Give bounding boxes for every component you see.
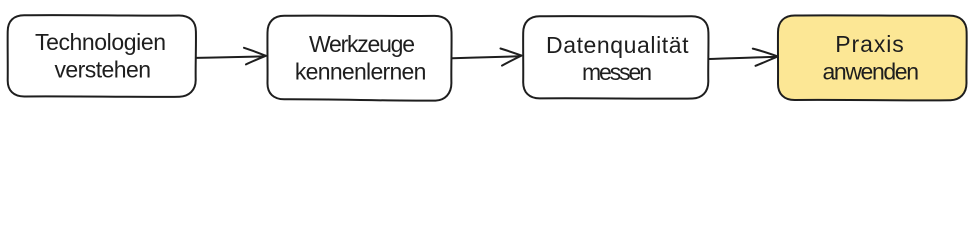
svg-text:Werkzeuge: Werkzeuge [309,31,415,57]
svg-text:anwenden: anwenden [823,58,920,84]
svg-text:Praxis: Praxis [835,31,904,57]
svg-text:Datenqualität: Datenqualität [546,32,689,58]
svg-text:Technologien: Technologien [35,29,166,55]
svg-text:messen: messen [582,59,652,85]
svg-text:kennenlernen: kennenlernen [295,58,427,84]
svg-text:verstehen: verstehen [55,56,152,82]
